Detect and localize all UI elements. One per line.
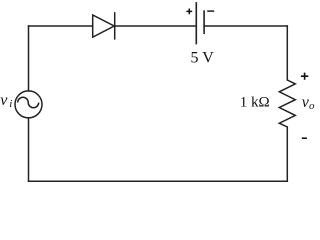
source Vi sine wave bbox=[18, 97, 39, 108]
wire left upper: top-left corner down to source top bbox=[28, 26, 30, 91]
node minus (output) bbox=[302, 137, 307, 139]
svg-text:1 kΩ: 1 kΩ bbox=[240, 95, 270, 111]
source Vi circle bbox=[15, 91, 42, 118]
node plus (output) bbox=[301, 73, 308, 80]
wire top-left: left corner to diode anode bbox=[29, 25, 93, 27]
battery plus label bbox=[186, 9, 192, 15]
battery negative plate (short) bbox=[203, 10, 205, 34]
wire right upper: top-right corner down to resistor top bbox=[286, 26, 288, 80]
svg-text:5 V: 5 V bbox=[191, 50, 215, 67]
wire top-right: battery right plate to top-right corner bbox=[204, 25, 287, 27]
diode D1 triangle bbox=[93, 15, 115, 37]
svg-text:i: i bbox=[9, 98, 12, 110]
svg-text:v: v bbox=[0, 92, 8, 109]
battery minus label bbox=[207, 10, 214, 12]
wire top-middle: diode cathode to battery left plate bbox=[115, 25, 197, 27]
battery positive plate (long) bbox=[195, 2, 197, 44]
diode D1 cathode bar bbox=[114, 12, 116, 39]
wire right lower: resistor bottom to bottom-right corner bbox=[286, 127, 288, 181]
resistor RL zigzag bbox=[279, 80, 295, 127]
wire left lower: source bottom down to bottom-left corner bbox=[28, 118, 30, 181]
wire bottom: bottom-left corner to bottom-right corner bbox=[29, 180, 288, 182]
svg-text:o: o bbox=[309, 100, 315, 112]
